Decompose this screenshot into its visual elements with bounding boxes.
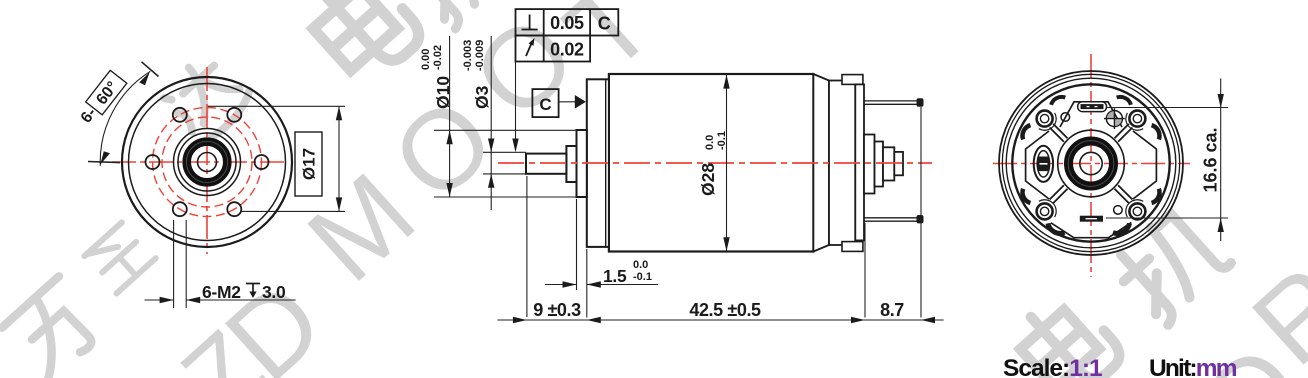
watermark hanzi dian 2 [1009, 287, 1126, 378]
dimension 6-M2 line right [186, 299, 296, 301]
side view stub tip [894, 152, 903, 175]
rear view crescent BR [1113, 223, 1132, 236]
side view stub step3 [883, 147, 894, 180]
dimension 6-M2 line left [145, 299, 174, 301]
dimension dia10 label [433, 76, 453, 109]
extension line shaft tip [526, 176, 528, 317]
rear view screw NE [1129, 111, 1145, 127]
datum C box [532, 89, 558, 117]
svg-text:0.05: 0.05 [550, 13, 584, 33]
dimension dia3 line [490, 36, 492, 210]
front view red centerline vertical [206, 67, 208, 254]
dimension 1.5 arrow left [563, 281, 577, 287]
side view end bell chamfer [813, 74, 829, 252]
rear view vent hole top [1061, 113, 1070, 122]
side view cap face [855, 84, 864, 240]
svg-text:1.5: 1.5 [603, 266, 627, 286]
side view body shell [609, 74, 814, 252]
watermark hanzi wan [1, 276, 107, 378]
front view bolt hole 60deg [227, 108, 241, 122]
front view red bolt circle [153, 108, 262, 217]
bottom dim arrow 42.5 left [587, 317, 601, 323]
dimension dia3 extension top [483, 151, 526, 153]
svg-text:Unit:mm: Unit:mm [1149, 355, 1237, 378]
svg-text:3.0: 3.0 [262, 282, 286, 302]
dimension 16.6 extension bottom [1106, 217, 1228, 219]
dimension dia17 line [338, 106, 340, 211]
dimension 6-M2 arrow right [186, 297, 200, 303]
rear view crescent BL [1046, 223, 1065, 236]
watermark hanzi ji 1 partial [402, 0, 514, 31]
rear view brush oval [1034, 146, 1053, 182]
rear view bearing ring highlight [1068, 141, 1114, 187]
svg-text:0.00: 0.00 [420, 49, 432, 70]
dimension 1.5 arrow right [587, 281, 601, 287]
rear view washer NW [1039, 113, 1056, 130]
side view stub step2 [875, 142, 884, 187]
bottom dim arrow 42.5 right [851, 317, 865, 323]
dimension dia10 extension bottom [434, 196, 577, 198]
dimension 6-M2 extension left [173, 220, 175, 308]
dimension dia17 label box [295, 132, 322, 196]
rear view vent hole bottom [1114, 206, 1123, 215]
front view bearing ring [187, 142, 228, 183]
svg-text:Ø28: Ø28 [698, 163, 718, 196]
dimension dia3 arrow up [488, 174, 494, 188]
extension line cap face [864, 223, 866, 318]
rear view washer SW [1039, 200, 1056, 217]
rear view rim circle2 [1002, 74, 1179, 251]
front view bolt hole 0deg [255, 155, 269, 169]
fcf runout symbol [526, 41, 533, 56]
front view bolt hole 300deg [227, 202, 241, 216]
rear view X arm NE [1115, 124, 1133, 142]
dimension 16.6 extension top [1107, 107, 1228, 109]
watermark hanzi da [157, 48, 256, 147]
dimension dia28 line [726, 75, 728, 252]
dimension dia10 arrow up [446, 130, 452, 144]
rear view window left [1026, 131, 1049, 199]
dimension dia3 arrow down [488, 139, 494, 153]
rear view X arm NW [1050, 124, 1068, 142]
bottom dim arrow 8.7 right [921, 317, 935, 323]
datum C triangle [575, 95, 586, 109]
rear view screw SE [1129, 203, 1145, 219]
svg-text:Ø17: Ø17 [300, 148, 319, 180]
front view bolt hole 240deg [173, 202, 187, 216]
watermark hanzi zhi [84, 222, 156, 294]
watermark hanzi dian 1 [301, 0, 426, 89]
dimension dia10 arrow down [446, 183, 452, 197]
depth symbol [246, 284, 260, 295]
rear view crescent RB [1152, 189, 1162, 205]
rear view window bottom [1051, 222, 1131, 237]
dimension 6-M2 extension right [185, 220, 187, 308]
extension line flange left [576, 199, 578, 290]
side view shaft [526, 154, 566, 174]
dimension 6-M2 arrow left [160, 297, 174, 303]
fcf leader to shaft [515, 62, 517, 151]
rear view window right [1133, 131, 1156, 199]
rear view screw NW [1037, 111, 1053, 127]
rear view red centerline vertical [1090, 54, 1092, 277]
svg-text:Ø3: Ø3 [472, 85, 492, 109]
svg-text:8.7: 8.7 [880, 300, 904, 320]
dimension dia3 extension bottom [483, 173, 526, 175]
rear view crescent LB [1020, 189, 1030, 205]
dimension 16.6 arrow bottom [1218, 218, 1224, 232]
side view terminal dot bottom [917, 215, 924, 223]
extension line datum face [586, 249, 588, 318]
front view red inner circle [162, 117, 252, 207]
rear view crescent LT [1020, 124, 1030, 140]
fcf perpendicularity symbol [522, 15, 538, 30]
side view red centerline [498, 162, 932, 164]
rear view red centerline horizontal [993, 163, 1190, 165]
datum C leader [559, 101, 576, 103]
rear view hub circle [1058, 130, 1125, 197]
svg-text:0.0: 0.0 [633, 259, 648, 271]
extension line pin tip [920, 107, 922, 318]
side view collar [566, 146, 576, 182]
fcf leader arrow [512, 139, 518, 153]
dimension dia17 arrow down [336, 197, 342, 211]
side view flange [577, 130, 587, 197]
svg-text:Scale:1:1: Scale:1:1 [1003, 355, 1102, 378]
dimension 1.5 line left [545, 284, 577, 286]
rear view crescent TL [1050, 94, 1066, 104]
svg-text:Ø10: Ø10 [433, 76, 453, 109]
rear view window top [1060, 102, 1122, 127]
front view shaft circle [198, 153, 217, 172]
dimension dia17 extension bottom [240, 210, 345, 212]
front view hub circle outer [174, 129, 241, 196]
fcf frame row1 [516, 9, 619, 35]
svg-text:0.02: 0.02 [550, 39, 584, 59]
svg-text:-0.1: -0.1 [633, 271, 652, 283]
bottom dimension line [498, 319, 944, 321]
svg-text:0.0: 0.0 [704, 135, 716, 150]
svg-text:-0.003: -0.003 [462, 40, 474, 71]
watermark hanzi ji 2 [1109, 203, 1234, 327]
rear view plate bold circle [1012, 84, 1169, 241]
svg-text:42.5 ±0.5: 42.5 ±0.5 [689, 300, 761, 320]
dimension 16.6 arrow top [1218, 94, 1224, 108]
rear view crescent RT [1152, 124, 1162, 140]
svg-text:-0.02: -0.02 [432, 45, 444, 70]
bottom dim arrow at shaft tip [513, 317, 527, 323]
dimension dia17 arrow up [336, 106, 342, 120]
side view terminal pin top [864, 101, 920, 104]
svg-text:C: C [598, 14, 611, 34]
rear view X arm SE [1115, 185, 1133, 203]
rear view washer SE [1126, 200, 1143, 217]
dimension 16.6 label [1201, 127, 1221, 192]
rear view shaft hole [1080, 152, 1102, 174]
front view bolt hole 180deg [146, 155, 160, 169]
front view red centerline horizontal [112, 161, 284, 163]
dimension 60deg tick top [142, 62, 159, 77]
rear view X arm SW [1050, 185, 1068, 203]
side view stub step1 [864, 135, 875, 194]
side view terminal pin bottom [864, 218, 920, 221]
dimension dia28 label [698, 163, 718, 196]
dimension dia28 arrow down [723, 237, 729, 251]
svg-text:9 ±0.3: 9 ±0.3 [533, 300, 581, 320]
rear view top slot outline [1078, 102, 1107, 112]
rear view bearing ring [1069, 141, 1114, 186]
rear view earth symbol [1104, 108, 1125, 129]
dimension dia10 extension top [434, 129, 577, 131]
side view front plate seam [605, 79, 607, 247]
front view outer circle [122, 77, 292, 247]
dimension 60deg tick bottom [88, 162, 120, 163]
side view front plate [587, 79, 609, 247]
dimension 60deg arrow top [139, 72, 150, 85]
front view rim circle [129, 84, 286, 241]
side view end bell tab top [842, 75, 863, 85]
rear view top slot bar [1081, 104, 1104, 109]
rear view rim circle3 [1006, 78, 1176, 248]
svg-text:C: C [539, 95, 551, 114]
side view terminal dot top [917, 98, 924, 106]
svg-text:6-M2: 6-M2 [202, 282, 241, 302]
svg-text:-0.1: -0.1 [716, 131, 728, 150]
rear view washer NE [1126, 113, 1143, 130]
front view bolt hole 120deg [173, 108, 187, 122]
dimension 16.6 line [1220, 79, 1222, 242]
svg-text:6-: 6- [78, 105, 100, 127]
rear view screw SW [1037, 203, 1053, 219]
rear view outer circle [999, 71, 1183, 255]
front view hub circle inner [178, 133, 236, 191]
rear view crescent TR [1117, 94, 1133, 104]
dimension 6-60 label [76, 70, 127, 127]
dimension dia10 line [449, 36, 451, 197]
front view bearing ring highlight [186, 141, 227, 182]
dimension 1.5 line right [587, 284, 658, 286]
dimension dia17 extension top [208, 105, 345, 107]
rear view bottom slot bar [1080, 216, 1103, 222]
dimension 60deg arrow bottom [100, 151, 110, 165]
dimension 60deg arc [100, 71, 150, 166]
dimension dia3 label [472, 85, 492, 109]
side view end bell mid [829, 81, 855, 246]
fcf frame row2 [516, 36, 591, 62]
svg-text:16.6 ca.: 16.6 ca. [1201, 127, 1221, 192]
dimension dia28 arrow up [723, 75, 729, 89]
side view end bell tab bottom [842, 242, 863, 252]
svg-text:-0.009: -0.009 [474, 40, 486, 71]
